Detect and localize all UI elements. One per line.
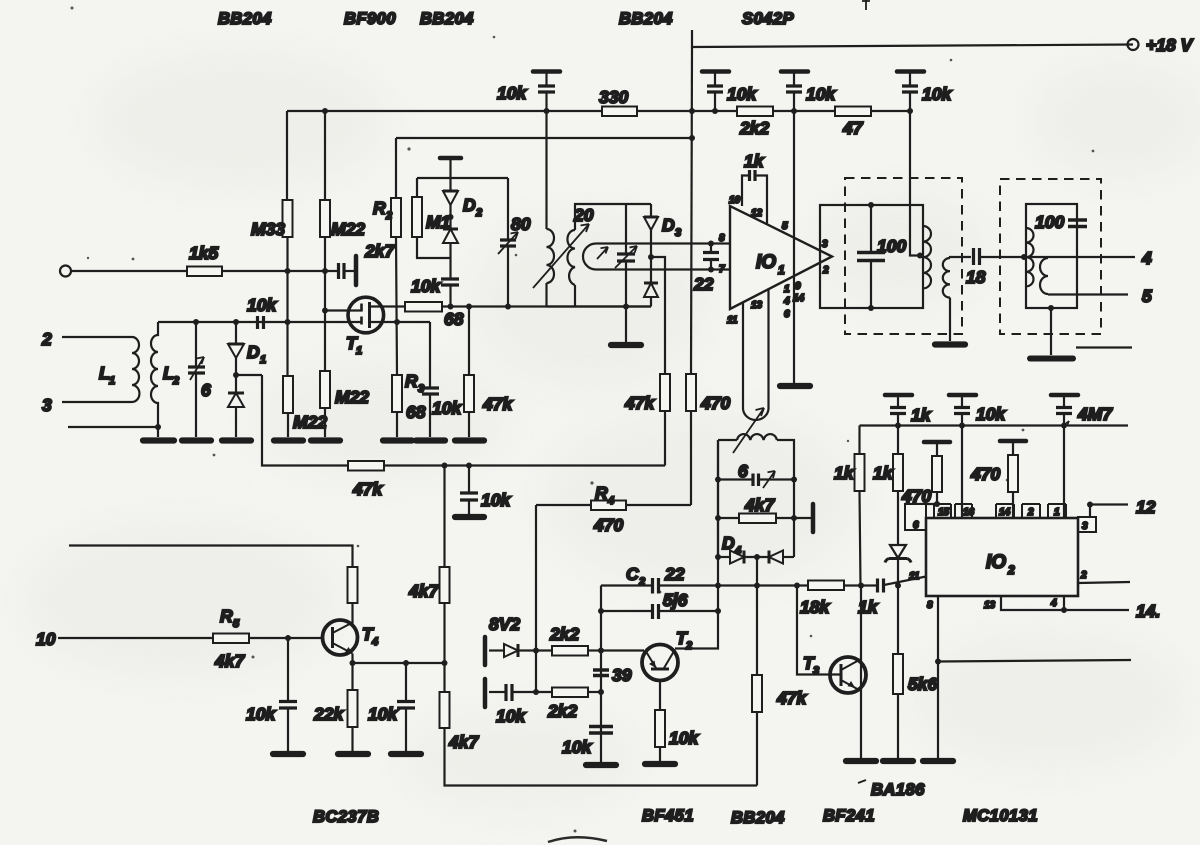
wire link top to 18 cap [950,257,971,258]
diode D3b [644,283,658,307]
svg-text:8: 8 [719,233,725,244]
node 962,425 [959,423,965,429]
svg-text:8: 8 [927,600,933,611]
resistor 47k AGC horizontal [348,461,384,471]
node 325,111 [322,108,328,114]
wire transformer bottom y=306.5 [547,305,652,307]
resistor 330 [602,107,637,117]
svg-text:330: 330 [599,87,628,107]
wire secondary bottom [574,285,576,307]
svg-text:18: 18 [966,267,986,287]
resistor 470 [686,374,696,411]
wire pin15 link [912,504,937,518]
node 601,692 [598,689,604,695]
svg-text:10k: 10k [806,84,836,104]
ground L2 [143,437,174,443]
node 288,638 [285,635,291,641]
wire emitter row y=663 [353,662,445,664]
svg-text:10k: 10k [922,84,952,104]
wire T2 collector to riser [675,440,718,649]
plate bar heavy [354,256,359,285]
wire riser x=536 [535,505,537,692]
wire divider column x=444 [443,466,445,568]
svg-text:4M7: 4M7 [1077,404,1113,424]
wire upper feed y=545.5 [69,546,353,568]
wire tank ground stem [625,307,627,343]
node 325,271 [322,268,328,274]
svg-text:3: 3 [822,239,828,250]
svg-text:D: D [247,342,260,362]
tank box 2 outline [1026,204,1077,308]
node 871,205 [868,202,874,208]
capacitor 10k at drain divider [441,279,459,285]
node 718,611 [715,608,721,614]
diode D4b [769,551,794,564]
svg-text:BB204: BB204 [619,10,673,28]
wire M22 lower-left to ground [287,413,289,437]
wire loop top y=178 [417,177,508,179]
svg-text:3: 3 [1082,521,1088,532]
node 444,663 [442,660,448,666]
node 196,322 [193,319,199,325]
svg-text:4: 4 [371,636,378,648]
svg-text:1: 1 [356,345,362,357]
svg-text:6: 6 [201,380,211,400]
wire 1kA to T3 collector node [860,491,861,586]
capacitor 10k base [279,702,297,709]
capacitor 10k on gate row [258,316,264,329]
wire T2 bias column x=601 [600,586,602,766]
svg-text:68: 68 [406,402,426,422]
resistor 470 pin14 column [1000,441,1026,518]
terminal +18V [1128,39,1139,50]
svg-text:14.: 14. [1136,601,1160,621]
pin box 2 [1022,504,1040,518]
T4 base bar [331,627,334,648]
svg-text:1k: 1k [834,463,855,483]
svg-text:470: 470 [970,464,1000,484]
capacitor 1k pin11 [878,579,884,593]
svg-text:BA186: BA186 [871,781,925,799]
svg-text:47k: 47k [624,393,655,413]
svg-text:47k: 47k [352,479,383,499]
bar terminal above D2 [440,156,461,161]
transistor T1 MOSFET circle [348,297,384,333]
wire output 12 [1090,503,1128,505]
ground trimmer6 [182,437,211,443]
svg-text:68: 68 [444,309,464,329]
wire 10k col to pin16 [961,426,963,519]
node 1064,610 [1061,607,1067,613]
svg-text:5: 5 [1142,286,1152,306]
svg-text:10k: 10k [247,295,277,315]
node 236,375 [233,372,239,378]
node 601,650 [598,648,604,654]
resistor 2k2 upper [552,646,588,656]
wire source cap column x=430 [429,322,431,387]
resistor 470 pin15 column [924,442,950,504]
node 898,425 [895,423,901,429]
wire 470 column x=691 lower [690,411,692,505]
wire riser x=262 down to AGC row [262,375,348,466]
resistor 18k [808,581,844,591]
T2 emitter lead with arrow [646,652,656,669]
wire 18 cap to tank2 tap [980,256,1025,258]
node 406,663 [403,660,409,666]
wire 2k2 to emitter node [588,691,601,693]
inductor L2 [151,322,158,437]
capacitor 1k feedback loop [742,170,767,224]
resistor R2 [391,198,401,237]
T3 emitter lead with arrow [841,680,861,691]
wire pin2 to L1 [62,336,132,338]
diode BA186 [885,545,911,654]
svg-text:IO: IO [756,252,776,273]
diode D1b varicap [228,393,244,437]
svg-text:14: 14 [999,507,1011,518]
svg-text:1: 1 [784,284,790,295]
dashed shield box 2 [1000,179,1101,334]
T1 channel bar [368,302,371,328]
wire D2 column [449,160,451,191]
svg-text:13: 13 [984,600,996,611]
wire oscillator hairpin from pins 13,11 [743,290,769,420]
wire gate2 row y=322 [158,321,361,323]
svg-text:1: 1 [1054,507,1060,518]
wire pin8 bus right [938,660,1131,662]
resistor 4k7 resonator [718,514,813,524]
wire primary column x=546 [545,111,547,229]
svg-text:470: 470 [700,393,730,413]
wire gate1 y=311 [325,309,362,311]
wire R4 row y=505 [536,504,691,506]
diode D2a varicap [443,191,458,229]
capacitor 1k bypass [885,395,912,426]
node 937,504 [934,501,940,507]
capacitor 10k AGC [460,493,478,500]
resistor M1 [412,197,422,237]
svg-text:BF900: BF900 [344,10,396,28]
smudge bottom [548,837,607,842]
node at 794,111 [791,108,797,114]
svg-text:12: 12 [1136,497,1156,517]
pin box 1 [1048,504,1066,518]
svg-text:1k: 1k [911,405,932,425]
capacitor 100 tank2 [1068,220,1087,227]
terminal bar zener row [483,637,488,665]
svg-text:4: 4 [1141,248,1152,268]
svg-text:470: 470 [593,515,623,535]
wire resonator left edge [717,440,719,557]
svg-text:16: 16 [963,507,975,518]
svg-text:100: 100 [1035,212,1064,232]
svg-text:2: 2 [475,207,482,219]
ground pin5 column [780,383,810,389]
wire cap to ground [429,395,431,437]
svg-text:47k: 47k [482,394,513,414]
wire T2 emitter down [659,681,661,711]
svg-text:2k2: 2k2 [549,624,579,644]
svg-text:10k: 10k [432,398,462,418]
wire drain row y=306.5 [370,305,652,307]
inductor tank1 on right edge [923,226,931,288]
wire column M1 x=417 [417,178,450,258]
node 794,479 [791,477,797,483]
svg-text:2: 2 [685,640,692,652]
wire T3 vertical [860,586,862,759]
node at 715,111 [712,108,718,114]
svg-text:6: 6 [784,309,790,320]
pin box 3 [1078,505,1096,533]
wire pin8 column [937,596,939,758]
wire 47k to AGC row [664,411,666,466]
wire resistor 1k B column [897,426,899,455]
svg-text:3: 3 [675,227,681,239]
resistor 2k2 [737,107,773,117]
svg-text:R: R [373,198,386,218]
arrow oscillator coupling [733,408,764,453]
transistor T4 circle [323,620,358,655]
wire supply bus y=111 [287,110,910,112]
svg-text:22k: 22k [313,704,344,724]
wire resistor 1k left column [858,426,860,455]
node 288,322 [285,319,291,325]
wire tank cap to bottom [625,262,627,307]
svg-text:2: 2 [1080,570,1087,581]
wire pin11 lead [884,577,926,586]
ground source cap [416,437,445,443]
svg-text:10k: 10k [246,704,276,724]
inductor link winding tank1 [943,258,950,298]
ground 47k [455,437,484,443]
resistor 68 drain [405,302,442,312]
svg-text:10k: 10k [496,706,526,726]
wire tank2 ground stem [1050,308,1052,355]
capacitor 10k bypass at x=546 [533,72,560,112]
resistor R4 470 [591,501,626,511]
svg-text:BC237B: BC237B [313,808,379,826]
node at 692,138 [689,135,695,141]
T4 emitter lead with arrow [333,643,353,654]
svg-text:2: 2 [385,210,392,222]
node 718,585 [715,583,721,589]
inductor link winding tank2 [1040,258,1048,294]
node 469,306 [466,304,472,310]
svg-text:10k: 10k [481,490,511,510]
ground tank2 [1030,356,1073,362]
svg-text:5j6: 5j6 [663,590,688,610]
node 325,311 [322,308,328,314]
svg-text:8V2: 8V2 [489,614,520,634]
wire +18V rail [692,30,1133,47]
wire primary bottom corner [545,283,547,307]
svg-text:6: 6 [738,461,748,481]
svg-text:2k7: 2k7 [364,241,395,261]
wire stub y=347 [1076,346,1132,348]
resistor M33 [283,200,293,237]
capacitor 10k coupling [489,684,552,701]
wire 10k cap column x=469 lower [468,466,470,493]
wire cap to bar [344,270,356,272]
resistor R3 [392,375,402,412]
ground T3 [846,758,876,764]
wire column R2 x=396 [396,138,397,375]
dashed shield box 1 [845,178,962,334]
svg-text:100: 100 [877,236,906,256]
svg-text:1k: 1k [873,463,894,483]
svg-text:2k2: 2k2 [547,701,577,721]
ground pin8 [923,758,953,764]
inductor tank2 on left edge [1026,228,1034,286]
ground tank [611,342,641,348]
svg-text:39: 39 [612,665,632,685]
resistor 47k [464,375,474,412]
node 938,661 [935,659,941,665]
trimmer capacitor 6 [188,322,205,437]
wire 10k cap column x=288 [287,638,289,701]
resistor 4k7 lower [440,692,450,728]
svg-text:10: 10 [729,195,741,206]
wire T4 emitter down [351,654,353,691]
inductor primary winding [547,229,555,283]
node 450,217 [448,214,454,220]
wire 47k to bottom bus [756,712,758,786]
trimmer capacitor 80 [498,178,518,307]
wire 4M7 col to pin1 [1063,426,1065,519]
wire 47k to ground [468,412,470,437]
node at 910,111 [907,108,913,114]
ground link tank1 [935,341,965,347]
svg-text:+18 V: +18 V [1146,35,1194,55]
node 871,308 [868,305,874,311]
node 450,306 [448,304,454,310]
svg-text:5: 5 [782,221,788,232]
svg-text:4: 4 [783,296,790,307]
wire coupling-loop hairpin to IO1 [583,244,730,270]
IC IO2 box [926,518,1078,596]
resistor 10k emitter T2 [655,710,665,747]
node 861,585 [858,583,864,589]
svg-text:7: 7 [719,264,725,275]
terminal bar right of 4k7 [811,504,816,532]
svg-text:D: D [662,215,675,235]
capacitor 10k bypass [949,395,976,426]
capacitor 10k bias [589,727,613,734]
wire column M22 x=325 [324,111,326,371]
inductor resonator coil [737,434,777,440]
node 797,585 [794,583,800,589]
trimmer capacitor 6 resonator [718,471,794,488]
resistor 1k5 [187,267,222,277]
pin box 6 [905,504,926,530]
resistor 47k discriminator [752,675,762,712]
svg-text:M22: M22 [331,219,365,239]
ground M22 lower-left [274,437,303,443]
wire supply tap into tank1 [910,111,919,256]
capacitor 10k bypass at x=910 [897,72,924,112]
trimmer capacitor tank [617,254,635,261]
pin box 15 [934,504,951,518]
wire column M33 x=287 [286,111,289,376]
node 236,322 [233,319,239,325]
svg-text:R: R [220,606,233,626]
svg-text:4k7: 4k7 [214,651,245,671]
svg-text:20: 20 [573,205,594,225]
wire stub to x=665 [651,257,665,374]
wire 10k to ground [659,747,661,761]
node at 692,111 [689,108,695,114]
capacitor 10k bypass at x=794 [781,72,808,112]
resistor 4k7 upper [440,567,450,603]
resistor 22k [348,690,358,727]
wire input row y=271 [71,270,338,272]
node 757,585 [754,583,760,589]
resistor T4 collector [348,567,358,603]
tick before BA186 [858,780,866,783]
node 158,427 [155,424,161,430]
wire AGC row y=465.5 [384,464,665,466]
svg-text:12: 12 [751,208,763,219]
svg-text:5: 5 [233,618,240,630]
svg-text:2: 2 [41,329,52,349]
svg-text:4k7: 4k7 [744,495,775,515]
node 794,518 [791,515,797,521]
T4 collector lead [333,623,353,634]
svg-text:4k7: 4k7 [448,732,479,752]
svg-text:BB204: BB204 [731,809,785,827]
svg-text:47: 47 [842,118,864,138]
svg-text:BF451: BF451 [642,807,694,825]
svg-text:5k6: 5k6 [908,674,937,694]
svg-text:10k: 10k [727,84,757,104]
resistor R5 4k7 [213,634,249,644]
svg-text:13: 13 [751,300,763,311]
node 898,585 [895,583,901,589]
wire vertical feed x=692 [691,47,692,374]
node D4 center [754,554,760,560]
stray mark top edge [862,0,870,10]
svg-text:10k: 10k [368,704,398,724]
wire 4k7 lower to bottom bus [445,728,758,786]
resistor 47 [835,107,871,117]
node 469,465 [466,463,472,469]
svg-text:D: D [463,195,476,215]
svg-text:80: 80 [511,214,531,234]
wire cap to drain row [449,286,451,307]
ground D1 [222,437,251,443]
diode D4a [718,551,769,564]
wire bus y=138 [396,137,692,139]
capacitor 18 coupling [974,248,980,265]
T1 gate bars [360,304,363,325]
wire 47k drain-bleed column x=469 [468,307,470,376]
resistor M22 lower-2 [320,371,330,408]
capacitor 100 tank1 [857,205,885,308]
svg-text:10: 10 [36,629,56,649]
pin box 14 [996,504,1014,518]
svg-text:2: 2 [172,375,179,387]
op-amp IO1 triangle [730,206,832,309]
terminal bar cap row [483,679,488,707]
wire 5k6 to ground [897,694,899,758]
wire source y=322 [370,321,431,323]
node 288,271 [285,268,291,274]
svg-text:1k5: 1k5 [189,243,218,263]
resistor 2k2 lower [552,688,588,698]
node at 546,111 [544,108,550,114]
wire R3 to ground [396,412,398,437]
capacitor input coupling [339,263,345,279]
